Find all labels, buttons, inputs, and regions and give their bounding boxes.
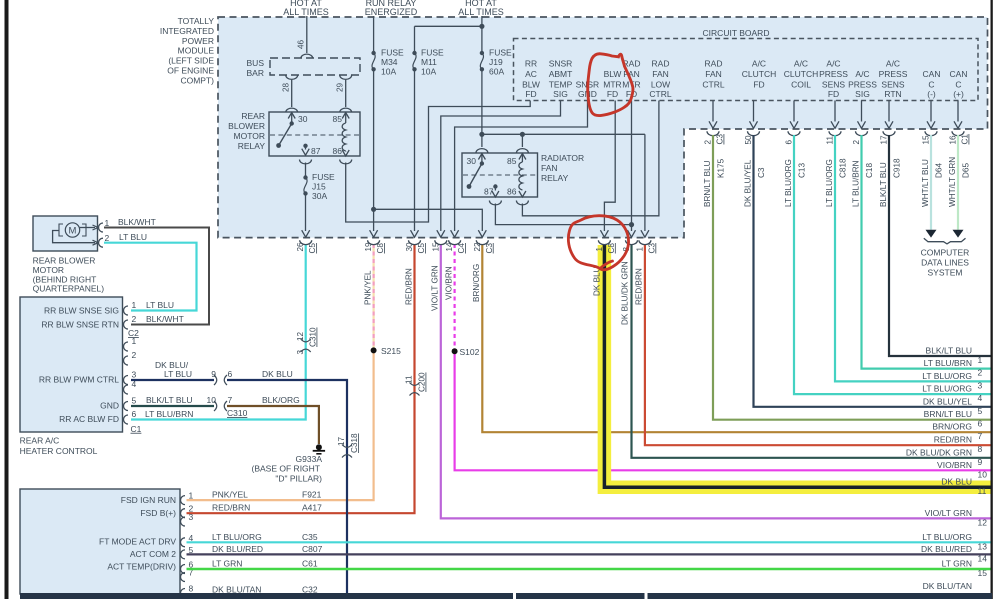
svg-text:10A: 10A	[421, 67, 436, 77]
svg-text:RAD: RAD	[652, 59, 670, 69]
svg-text:MTR: MTR	[603, 79, 621, 89]
right edge wire number labels	[906, 346, 987, 592]
svg-text:TOTALLY: TOTALLY	[178, 16, 215, 26]
wire DK BLU/LT BLU pin 3 to connector C310	[131, 379, 214, 381]
svg-text:A417: A417	[302, 503, 322, 513]
svg-text:COIL: COIL	[791, 79, 811, 89]
svg-text:(-): (-)	[927, 89, 936, 99]
wire LT BLU/ORG (C13)	[794, 135, 991, 394]
svg-text:PNK/YEL: PNK/YEL	[364, 270, 373, 305]
svg-text:SIG: SIG	[855, 89, 870, 99]
svg-text:REAR: REAR	[241, 111, 265, 121]
svg-text:"D" PILLAR): "D" PILLAR)	[275, 474, 322, 484]
svg-text:C318: C318	[350, 433, 359, 453]
relay - RADIATOR FAN RELAY box	[481, 134, 483, 147]
svg-text:FAN: FAN	[541, 163, 558, 173]
svg-text:PRESS: PRESS	[848, 79, 877, 89]
svg-text:HEATER CONTROL: HEATER CONTROL	[20, 446, 98, 456]
circuit board (dashed box)	[514, 39, 979, 101]
wire WHT/LT BLU (D64)	[930, 135, 932, 230]
wire LT BLU/BRN (C18)	[862, 135, 991, 369]
svg-text:5: 5	[978, 406, 983, 416]
connector C318 on DK BLU (17)	[342, 445, 352, 448]
TIPM module outline (dashed L-shaped box)	[218, 17, 988, 238]
computer data lines brace	[924, 238, 966, 244]
svg-text:ALL TIMES: ALL TIMES	[458, 7, 504, 17]
svg-text:CTRL: CTRL	[702, 79, 724, 89]
wire 28 bus bar to relay pin 30	[291, 80, 293, 107]
svg-text:2: 2	[105, 233, 110, 243]
fuse J15 30A	[300, 160, 312, 164]
splice S102	[452, 348, 458, 354]
svg-text:F921: F921	[302, 490, 322, 500]
svg-text:BLK/LT BLU: BLK/LT BLU	[926, 346, 972, 356]
svg-text:BLW: BLW	[604, 69, 622, 79]
svg-text:M11: M11	[421, 57, 437, 67]
svg-text:ALL TIMES: ALL TIMES	[283, 7, 329, 17]
svg-text:30: 30	[467, 156, 477, 166]
wire BLK/LT BLU (C918)	[889, 135, 991, 356]
TIPM bottom pin 1	[641, 230, 649, 237]
svg-text:BLW: BLW	[522, 79, 540, 89]
svg-text:FD: FD	[607, 89, 618, 99]
svg-text:1: 1	[595, 247, 604, 252]
svg-text:D65: D65	[962, 163, 971, 178]
splice S215	[371, 347, 377, 353]
svg-text:FD: FD	[753, 79, 764, 89]
svg-text:C1: C1	[131, 424, 142, 434]
svg-text:30: 30	[405, 242, 414, 252]
svg-text:CIRCUIT BOARD: CIRCUIT BOARD	[703, 28, 770, 38]
svg-text:DK BLU/RED: DK BLU/RED	[212, 544, 263, 554]
svg-text:PRESS: PRESS	[819, 69, 848, 79]
wire M34 branch to BRN/ORG pin 22	[371, 207, 376, 212]
wire BLK/LT BLU pin 5 to connector C310	[131, 405, 214, 407]
svg-text:11: 11	[826, 136, 835, 145]
svg-text:7: 7	[228, 395, 233, 405]
svg-text:DK BLU/DK GRN: DK BLU/DK GRN	[906, 447, 972, 457]
svg-text:BRN/ORG: BRN/ORG	[932, 422, 972, 432]
ground G933A	[316, 444, 322, 450]
svg-text:FUSE: FUSE	[489, 48, 512, 58]
wire BLK/ORG from connector to ground G933A	[227, 406, 319, 444]
svg-text:11: 11	[978, 486, 987, 496]
svg-text:G933A: G933A	[296, 454, 323, 464]
svg-text:FAN: FAN	[652, 69, 669, 79]
svg-text:FAN: FAN	[705, 69, 722, 79]
svg-text:10: 10	[207, 395, 217, 405]
junction J19 to radiator fan relay and RED/BRN pin	[479, 132, 484, 137]
fuse J19 60A	[480, 51, 484, 55]
svg-text:28: 28	[282, 82, 291, 92]
svg-text:RR AC BLW FD: RR AC BLW FD	[59, 414, 119, 424]
motor lead pin 2	[53, 231, 95, 243]
svg-text:DK BLU: DK BLU	[593, 266, 602, 296]
wire BRN/LT BLU (K175)	[713, 135, 991, 420]
svg-text:46: 46	[297, 39, 306, 49]
page right border	[991, 0, 993, 599]
svg-text:SNSR: SNSR	[549, 59, 573, 69]
svg-text:COMPT): COMPT)	[180, 75, 214, 85]
svg-text:C3: C3	[647, 243, 656, 254]
svg-text:LT BLU/ORG: LT BLU/ORG	[825, 159, 834, 207]
svg-text:DK BLU/TAN: DK BLU/TAN	[923, 581, 972, 591]
svg-text:A/C: A/C	[752, 59, 766, 69]
wire LT BLU/ORG row 13	[187, 541, 991, 543]
svg-text:C5: C5	[308, 243, 317, 254]
TIPM bottom pin 8	[628, 230, 636, 237]
svg-text:CAN: CAN	[923, 69, 941, 79]
svg-text:LT BLU: LT BLU	[164, 369, 192, 379]
svg-text:BAR: BAR	[247, 68, 264, 78]
svg-text:SENS: SENS	[881, 79, 904, 89]
svg-text:CLUTCH: CLUTCH	[742, 69, 776, 79]
wire radiator relay 86 to RAD FAN LOW CTRL	[516, 201, 528, 205]
svg-text:RED/BRN: RED/BRN	[405, 268, 414, 305]
circuit board pin 2 (BRN/LT BLU K175)	[712, 101, 714, 122]
svg-text:2: 2	[132, 314, 137, 324]
svg-text:C918: C918	[893, 158, 902, 178]
svg-text:LT BLU/BRN: LT BLU/BRN	[852, 160, 861, 207]
svg-text:12: 12	[978, 517, 988, 527]
svg-text:1: 1	[132, 336, 137, 346]
wire RED/BRN from pin 1 C3 to row 8	[645, 244, 991, 445]
svg-text:ACT COM 2: ACT COM 2	[130, 549, 176, 559]
svg-text:C: C	[955, 79, 961, 89]
svg-text:C8: C8	[607, 243, 616, 254]
svg-text:DK BLU/YEL: DK BLU/YEL	[744, 159, 753, 207]
svg-text:9: 9	[978, 457, 983, 467]
svg-text:FD: FD	[525, 89, 536, 99]
svg-text:INTEGRATED: INTEGRATED	[160, 26, 214, 36]
svg-text:FD: FD	[828, 89, 839, 99]
svg-text:VIO/LT GRN: VIO/LT GRN	[431, 265, 440, 311]
front control module box (FSD)	[20, 489, 180, 594]
svg-text:3: 3	[978, 380, 983, 390]
relay - REAR BLOWER MOTOR RELAY box	[269, 112, 360, 156]
svg-text:87: 87	[484, 187, 494, 197]
svg-text:LT BLU/ORG: LT BLU/ORG	[922, 532, 972, 542]
svg-text:A/C: A/C	[886, 59, 900, 69]
wire RAD BLW MTR FD column to pin 1 C8	[604, 101, 615, 232]
red pen circle around RAD BLW MTR FD	[588, 54, 633, 116]
radiator relay contact 87	[493, 184, 497, 188]
svg-text:BLK/LT BLU: BLK/LT BLU	[879, 162, 888, 207]
svg-text:PNK/YEL: PNK/YEL	[212, 490, 248, 500]
fuse M34 10A	[371, 51, 375, 55]
svg-text:15: 15	[431, 242, 440, 252]
svg-text:BRN/LT BLU: BRN/LT BLU	[924, 409, 972, 419]
svg-text:M34: M34	[381, 57, 398, 67]
svg-text:LT BLU/BRN: LT BLU/BRN	[924, 358, 972, 368]
wire WHT/LT GRN (D65)	[957, 135, 959, 230]
svg-text:C18: C18	[865, 163, 874, 178]
svg-text:WHT/LT GRN: WHT/LT GRN	[948, 157, 957, 207]
svg-text:RED/BRN: RED/BRN	[934, 435, 972, 445]
svg-text:RELAY: RELAY	[541, 173, 569, 183]
wire DK BLU/RED row 14	[187, 553, 991, 555]
svg-text:RELAY: RELAY	[238, 141, 266, 151]
svg-text:29: 29	[336, 82, 345, 92]
svg-text:BLK/LT BLU: BLK/LT BLU	[146, 395, 192, 405]
wire DK BLU/TAN row 16 (thick, page bottom)	[20, 593, 992, 599]
svg-text:BUS: BUS	[247, 58, 265, 68]
wire VIO/BRN dashed from pin 14 to splice S102	[454, 244, 456, 351]
svg-text:8: 8	[978, 444, 983, 454]
svg-text:LT BLU: LT BLU	[119, 232, 147, 242]
svg-text:1: 1	[189, 491, 194, 501]
svg-text:A/C: A/C	[855, 69, 869, 79]
svg-text:LT BLU/ORG: LT BLU/ORG	[922, 384, 972, 394]
svg-text:1: 1	[978, 355, 983, 365]
svg-text:A/C: A/C	[826, 59, 840, 69]
svg-text:LT GRN: LT GRN	[212, 559, 242, 569]
svg-text:ABMT: ABMT	[549, 69, 573, 79]
svg-text:30: 30	[298, 114, 308, 124]
circuit board pin 11 (LT BLU/ORG C818)	[834, 101, 836, 122]
svg-text:LT BLU/BRN: LT BLU/BRN	[145, 409, 193, 419]
svg-text:DK BLU: DK BLU	[941, 477, 972, 487]
svg-text:D64: D64	[935, 163, 944, 178]
svg-text:BLOWER: BLOWER	[228, 121, 265, 131]
svg-text:DATA LINES: DATA LINES	[921, 258, 969, 268]
svg-text:2: 2	[852, 140, 861, 145]
svg-text:50: 50	[744, 135, 753, 145]
red pen circle around DK BLU pin C8	[568, 216, 628, 270]
svg-text:CLUTCH: CLUTCH	[784, 69, 818, 79]
svg-text:SIG: SIG	[553, 89, 568, 99]
svg-text:GND: GND	[100, 401, 119, 411]
FSD pins	[181, 496, 186, 505]
svg-text:J15: J15	[312, 182, 326, 192]
svg-text:LT BLU/ORG: LT BLU/ORG	[922, 371, 972, 381]
svg-text:LT BLU: LT BLU	[146, 300, 174, 310]
svg-text:14: 14	[445, 242, 454, 252]
svg-text:C5: C5	[417, 243, 426, 254]
svg-text:3: 3	[189, 512, 194, 522]
svg-text:TEMP: TEMP	[549, 79, 573, 89]
svg-text:C4: C4	[457, 243, 466, 254]
svg-text:C3: C3	[757, 167, 766, 178]
svg-text:SENS: SENS	[822, 79, 845, 89]
svg-text:VIO/BRN: VIO/BRN	[445, 266, 454, 300]
svg-text:7: 7	[978, 431, 983, 441]
svg-text:AC: AC	[525, 69, 537, 79]
TIPM bottom pin 14	[451, 230, 459, 237]
svg-text:RR BLW SNSE RTN: RR BLW SNSE RTN	[41, 320, 119, 330]
svg-text:CTRL: CTRL	[649, 89, 671, 99]
svg-text:J19: J19	[489, 57, 503, 67]
wire radiator relay 87 to RAD FAN MTR FD column	[489, 201, 501, 205]
svg-text:RAD: RAD	[705, 59, 723, 69]
svg-text:POWER: POWER	[182, 36, 214, 46]
svg-text:LT BLU/ORG: LT BLU/ORG	[212, 532, 262, 542]
svg-text:MOTOR: MOTOR	[234, 131, 265, 141]
svg-text:85: 85	[507, 156, 517, 166]
wire PNK/YEL dashed from pin 19 to splice S215	[373, 244, 375, 350]
svg-text:C3: C3	[716, 134, 725, 145]
svg-text:BLK/ORG: BLK/ORG	[262, 395, 300, 405]
circuit board pin 6 (LT BLU/ORG C13)	[793, 101, 795, 122]
svg-text:FT MODE ACT DRV: FT MODE ACT DRV	[99, 537, 176, 547]
svg-text:C61: C61	[302, 559, 318, 569]
svg-text:FUSE: FUSE	[421, 48, 444, 58]
svg-text:C8: C8	[376, 243, 385, 254]
svg-text:M: M	[69, 226, 77, 237]
svg-text:K175: K175	[717, 158, 726, 178]
svg-text:19: 19	[364, 242, 373, 252]
svg-text:BRN/LT BLU: BRN/LT BLU	[703, 160, 712, 207]
svg-text:RR BLW SNSE SIG: RR BLW SNSE SIG	[44, 306, 119, 316]
circuit board pin 17 (BLK/LT BLU C918)	[888, 101, 890, 122]
svg-text:COMPUTER: COMPUTER	[921, 248, 970, 258]
svg-text:ENERGIZED: ENERGIZED	[365, 7, 418, 17]
svg-text:BLK/WHT: BLK/WHT	[118, 217, 156, 227]
svg-text:C818: C818	[839, 158, 848, 178]
svg-text:6: 6	[132, 409, 137, 419]
wire LT BLU/BRN from pin 26 to heater pin 6	[131, 244, 306, 420]
svg-text:10A: 10A	[381, 67, 396, 77]
svg-text:6: 6	[785, 140, 794, 145]
svg-text:C: C	[928, 79, 934, 89]
svg-text:RTN: RTN	[884, 89, 901, 99]
svg-text:C3: C3	[485, 243, 494, 254]
svg-text:RADIATOR: RADIATOR	[541, 153, 584, 163]
TIPM bottom pin 22	[478, 230, 486, 237]
wire SNSR GND column to pin 14	[455, 101, 588, 232]
svg-text:C200: C200	[418, 372, 427, 392]
svg-text:S215: S215	[381, 346, 401, 356]
svg-text:FUSE: FUSE	[381, 48, 404, 58]
svg-text:OF ENGINE: OF ENGINE	[167, 66, 214, 76]
svg-text:FUSE: FUSE	[312, 172, 335, 182]
circuit board pin 50 (DK BLU/YEL C3)	[753, 101, 755, 122]
TIPM bottom pin 30	[411, 230, 419, 237]
svg-text:10: 10	[978, 469, 988, 479]
svg-text:C1: C1	[961, 134, 970, 145]
svg-text:MODULE: MODULE	[178, 46, 215, 56]
wire SNSR ABMT TEMP SIG column to pin 15	[441, 101, 561, 232]
svg-text:85: 85	[333, 114, 343, 124]
svg-text:BLK/WHT: BLK/WHT	[146, 314, 184, 324]
svg-text:DK BLU/DK GRN: DK BLU/DK GRN	[621, 261, 630, 325]
svg-text:C310: C310	[309, 327, 318, 347]
svg-text:RED/BRN: RED/BRN	[635, 268, 644, 305]
wire LT GRN row 15	[187, 568, 991, 570]
svg-text:C13: C13	[798, 163, 807, 178]
wire DK BLU/YEL (C3)	[754, 135, 991, 407]
svg-text:4: 4	[978, 393, 983, 403]
svg-text:1: 1	[635, 247, 644, 252]
svg-text:30A: 30A	[312, 191, 327, 201]
svg-text:A/C: A/C	[794, 59, 808, 69]
wire DK BLU from pin 1 C8 to row 11 (highlighted)	[604, 244, 990, 487]
svg-text:6: 6	[228, 369, 233, 379]
svg-text:RED/BRN: RED/BRN	[212, 503, 250, 513]
svg-text:8: 8	[189, 584, 194, 594]
wire blower relay 86 to RR AC BLW FD column	[340, 160, 352, 164]
svg-text:LT GRN: LT GRN	[942, 559, 972, 569]
motor - REAR BLOWER MOTOR box	[33, 216, 98, 251]
wire BLK/WHT motor pin1 to heater pin 2	[104, 228, 209, 325]
svg-text:VIO/BRN: VIO/BRN	[937, 460, 972, 470]
svg-text:1: 1	[132, 300, 137, 310]
svg-text:WHT/LT BLU: WHT/LT BLU	[921, 159, 930, 207]
svg-text:C807: C807	[302, 544, 323, 554]
svg-text:(LEFT SIDE: (LEFT SIDE	[168, 56, 214, 66]
wire 29 bus bar to relay coil 85	[345, 80, 347, 107]
bus bar (dashed)	[270, 58, 360, 75]
svg-text:LOW: LOW	[651, 79, 670, 89]
radiator relay contact 30	[478, 154, 485, 160]
fuse M11 10A	[412, 51, 416, 55]
svg-text:ACT TEMP(DRIV): ACT TEMP(DRIV)	[107, 562, 176, 572]
heater control connector C2 pins	[124, 306, 129, 315]
wire RAD FAN MTR FD column to pin 8	[631, 101, 633, 232]
svg-text:DK BLU/YEL: DK BLU/YEL	[923, 396, 972, 406]
wire RED/BRN from pin 30 to FSD B(+) (A417)	[187, 244, 415, 513]
svg-text:C35: C35	[302, 532, 318, 542]
svg-text:SYSTEM: SYSTEM	[928, 268, 963, 278]
svg-text:BRN/ORG: BRN/ORG	[472, 264, 481, 302]
svg-text:26: 26	[296, 242, 305, 252]
wire DK BLU from connector to bottom edge	[227, 380, 347, 599]
svg-text:PRESS: PRESS	[879, 69, 908, 79]
motor symbol M	[65, 223, 79, 237]
svg-text:CAN: CAN	[950, 69, 968, 79]
yellow highlighter on DK BLU wire	[604, 245, 990, 487]
svg-text:S102: S102	[460, 347, 480, 357]
svg-text:6: 6	[978, 419, 983, 429]
relay contact 87	[303, 144, 307, 148]
wire HOT AT ALL TIMES to J19 and M11	[481, 16, 483, 53]
wire 46 from HOT AT ALL TIMES to bus bar	[306, 16, 308, 53]
wire LT BLU motor pin2 to heater pin 1	[104, 243, 197, 311]
relay contact 30	[288, 113, 295, 119]
wire LT BLU/ORG (C818)	[835, 135, 991, 381]
svg-text:2: 2	[132, 350, 137, 360]
svg-text:3: 3	[132, 370, 137, 380]
svg-text:15: 15	[922, 135, 931, 145]
TIPM bottom pin 19	[370, 230, 378, 237]
svg-text:RR: RR	[525, 59, 537, 69]
wire VIO/BRN from S102 to row 10	[455, 351, 991, 470]
svg-text:86: 86	[507, 187, 517, 197]
svg-text:3: 3	[296, 350, 305, 355]
svg-text:LT BLU/ORG: LT BLU/ORG	[784, 159, 793, 207]
svg-text:60A: 60A	[489, 67, 504, 77]
svg-text:17: 17	[880, 135, 889, 145]
svg-text:11: 11	[405, 375, 414, 384]
svg-text:5: 5	[132, 396, 137, 406]
TIPM bottom pin 26	[302, 230, 310, 237]
wire RUN RELAY feed to fuse M34	[373, 16, 375, 53]
TIPM bottom pin 15	[437, 230, 445, 237]
svg-text:22: 22	[473, 242, 482, 252]
circuit board pin 2 (LT BLU/BRN C18)	[861, 101, 863, 122]
svg-text:FSD IGN RUN: FSD IGN RUN	[121, 495, 176, 505]
svg-text:12: 12	[296, 331, 305, 341]
svg-text:DK BLU: DK BLU	[262, 369, 293, 379]
wire DK BLU/DK GRN from pin 8 to row 9	[632, 244, 991, 458]
svg-text:REAR A/C: REAR A/C	[20, 436, 60, 446]
wire PNK/YEL from S215 to FSD IGN RUN (F921)	[187, 350, 374, 500]
svg-text:C310: C310	[227, 408, 248, 418]
svg-text:(BASE OF RIGHT: (BASE OF RIGHT	[252, 464, 320, 474]
svg-text:17: 17	[337, 436, 346, 446]
page left border	[5, 0, 9, 599]
wire BRN/ORG from pin 22 to row 7	[482, 244, 990, 432]
